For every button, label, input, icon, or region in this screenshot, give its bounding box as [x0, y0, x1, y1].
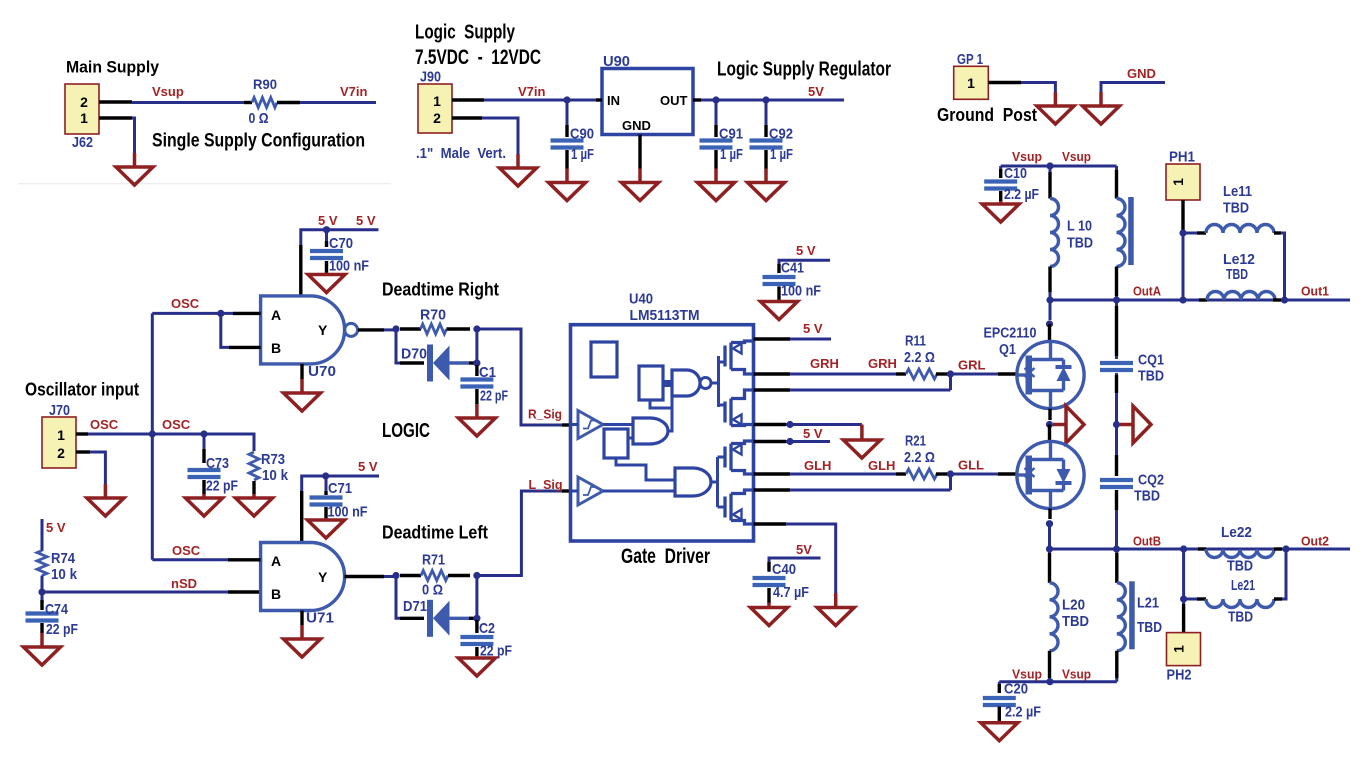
pin U70 A: [271, 307, 281, 323]
label Le21: [1231, 577, 1255, 594]
wire GP1 stub: [988, 81, 1021, 84]
ground GND net: [1083, 92, 1120, 124]
svg-text:Le11: Le11: [1223, 183, 1252, 200]
label Vsup top a: [1012, 149, 1042, 164]
svg-text:1: 1: [1170, 178, 1186, 186]
label D70: [401, 346, 427, 363]
transistor Q2: [1017, 441, 1085, 508]
label R90 value: [249, 111, 269, 127]
ground VSS: [817, 594, 854, 626]
wire R71 left stub: [400, 574, 421, 577]
ground C90: [549, 169, 586, 201]
wire L20 top stub: [1048, 549, 1051, 583]
label C92: [769, 126, 793, 143]
label C41: [781, 260, 804, 277]
label L20 value: [1062, 613, 1089, 630]
svg-text:5 V: 5 V: [356, 213, 376, 228]
wire nSD stub: [228, 590, 261, 593]
svg-text:R21: R21: [905, 433, 926, 450]
node OutB j2: [1113, 545, 1120, 552]
svg-text:PH1: PH1: [1169, 149, 1195, 166]
svg-text:TBD: TBD: [1228, 609, 1253, 626]
wire Le21 right corner: [1282, 549, 1286, 599]
svg-text:Out1: Out1: [1301, 284, 1329, 299]
wire R70 left stub: [400, 327, 421, 330]
svg-text:C20: C20: [1004, 680, 1028, 697]
wire Q1 source: [1048, 409, 1051, 420]
label 5V R74: [46, 520, 66, 535]
pin U71 A: [271, 553, 281, 569]
node GRL junction: [947, 370, 954, 377]
svg-text:Vsup: Vsup: [1012, 149, 1042, 164]
U40 wire midand-to-topand: [668, 395, 672, 432]
wire J70 pin2 to ground: [90, 452, 105, 484]
transistor Q1: [1017, 341, 1085, 408]
label R74 value: [51, 566, 78, 583]
U40 wire midrect-to-midand: [628, 437, 633, 440]
svg-text:C92: C92: [769, 126, 793, 143]
svg-text:5 V: 5 V: [46, 520, 66, 535]
U40 buffer R: [578, 411, 603, 439]
node Q2 bottom junction: [1046, 520, 1053, 527]
svg-text:TBD: TBD: [1226, 266, 1248, 283]
title Logic Supply range: [415, 46, 541, 69]
capacitor C10: [984, 166, 1017, 202]
wire 5V out net: [701, 99, 844, 102]
label J62: [72, 135, 93, 151]
wire OSC horizontal: [88, 433, 254, 436]
svg-text:D71: D71: [403, 598, 427, 615]
svg-text:U71: U71: [306, 610, 334, 627]
label CQ1 value: [1138, 368, 1164, 385]
U40 internal rect top-left: [591, 342, 617, 377]
svg-text:Deadtime Left: Deadtime Left: [382, 523, 488, 543]
pin U71 Y: [318, 569, 328, 585]
wire Le11 right corner: [1281, 233, 1285, 300]
label 5V C40: [796, 542, 812, 557]
U40 wire rect-elbow: [650, 400, 672, 408]
svg-text:Vsup: Vsup: [1062, 149, 1091, 164]
wire GRL pin: [754, 374, 951, 390]
wire L21 top stub: [1115, 549, 1118, 583]
title Main Supply: [66, 58, 159, 77]
node OutB j1: [1046, 545, 1053, 552]
label C74: [45, 601, 69, 618]
label Le11: [1223, 183, 1252, 200]
wire L10 right bottom stub: [1115, 267, 1118, 301]
svg-text:2.2 Ω: 2.2 Ω: [904, 349, 935, 366]
wire Q2 to OutB: [1048, 524, 1051, 549]
wire GLL pin: [754, 474, 951, 490]
label C91: [719, 126, 743, 143]
svg-text:TBD: TBD: [1227, 558, 1253, 575]
label C20 value: [1005, 704, 1041, 721]
transformer core L21: [1129, 581, 1135, 649]
wire U71 bottom pin: [300, 611, 303, 626]
wire OSC main vertical: [151, 313, 154, 559]
label J90 type: [416, 145, 506, 162]
ground C91: [698, 169, 735, 201]
label GLH a: [804, 458, 831, 473]
label LM5113TM: [630, 308, 700, 324]
label V7in: [340, 84, 368, 99]
svg-text:100 nF: 100 nF: [329, 258, 369, 275]
svg-text:Main Supply: Main Supply: [66, 58, 159, 77]
ground U70: [284, 379, 321, 411]
label R70: [420, 307, 446, 324]
U40 fet 1: [725, 341, 754, 374]
wire GRL to gate: [951, 373, 1017, 376]
node U70 in junction: [217, 310, 224, 317]
svg-text:J62: J62: [72, 135, 93, 151]
inductor Le21: [1184, 599, 1282, 608]
wire PH1 node to OutA: [1182, 233, 1185, 300]
wire 5V R74 vertical: [41, 519, 44, 551]
wire D71 left: [396, 576, 424, 619]
label U70: [308, 363, 336, 380]
svg-text:5 V: 5 V: [358, 459, 378, 474]
label R21 value: [904, 449, 935, 466]
wire U90 IN stub: [596, 98, 602, 101]
wire U70 A wire: [152, 312, 233, 315]
label C74 value: [46, 621, 78, 638]
wire Le21 left vertical: [1182, 549, 1185, 599]
label C92 value: [770, 146, 793, 163]
capacitor C70: [310, 232, 343, 273]
pin U70 Y: [318, 322, 328, 338]
svg-text:Vsup: Vsup: [1012, 667, 1042, 682]
inductor Le22: [1198, 549, 1282, 558]
node Le11 left junction: [1179, 229, 1186, 236]
svg-text:C10: C10: [1004, 165, 1027, 182]
wire PH2 pin: [1182, 599, 1185, 633]
ground GP1: [1037, 92, 1074, 124]
wire 5V rail C40: [769, 558, 821, 572]
wire GRH pin: [754, 372, 907, 375]
ground J62: [116, 153, 153, 185]
label R71 value: [422, 582, 443, 599]
wire Q2 source: [1048, 509, 1051, 519]
svg-text:GND: GND: [622, 118, 651, 133]
wire R_Sig stub: [562, 423, 571, 426]
wire L_Sig net: [477, 491, 562, 576]
and gate U71: [261, 543, 345, 611]
label PH2: [1167, 667, 1192, 683]
connector PH2: [1167, 633, 1201, 666]
U40 wire midrect-to-lowand: [616, 458, 675, 480]
label C2: [479, 620, 495, 637]
ground C20: [981, 721, 1018, 741]
wire J62 pin1 stub: [99, 116, 132, 119]
node VDD junction: [786, 438, 793, 445]
svg-text:V7in: V7in: [340, 84, 368, 99]
svg-text:Single Supply Configuration: Single Supply Configuration: [152, 131, 365, 152]
title Deadtime Right: [382, 280, 499, 300]
wire GND net: [1101, 83, 1165, 93]
wire OutB rail: [1050, 548, 1351, 551]
label CQ2 value: [1134, 488, 1160, 505]
capacitor C41: [763, 262, 796, 300]
diode D70: [427, 345, 469, 382]
label C2 value: [480, 643, 512, 660]
svg-text:IN: IN: [607, 93, 620, 108]
label Le12: [1223, 251, 1255, 268]
label 5V mid: [803, 426, 823, 441]
svg-text:TBD: TBD: [1134, 488, 1160, 505]
ground C73: [186, 494, 223, 516]
label OSC U71: [172, 543, 201, 558]
label 5V rail b: [356, 213, 376, 228]
svg-text:2.2 µF: 2.2 µF: [1005, 704, 1041, 721]
svg-text:CQ2: CQ2: [1138, 472, 1164, 489]
svg-text:Vsup: Vsup: [152, 84, 184, 99]
wire V7in net: [300, 101, 376, 104]
node R70 left junction: [392, 325, 399, 332]
label OutA: [1133, 284, 1162, 299]
wire PH1 pin: [1181, 200, 1184, 233]
wire D70 right: [469, 361, 477, 364]
wire L10 left bottom stub: [1048, 267, 1051, 301]
node Le21 left junction: [1180, 595, 1187, 602]
label U40: [629, 292, 653, 308]
label Le12 value: [1226, 266, 1248, 283]
svg-text:R74: R74: [51, 550, 76, 567]
title Logic Supply Regulator: [717, 58, 891, 80]
label L10 value: [1067, 235, 1093, 252]
wire Vsup bottom rail: [999, 680, 1117, 683]
wire U70 bottom pin: [300, 364, 303, 379]
svg-text:V7in: V7in: [518, 84, 546, 99]
svg-text:100 nF: 100 nF: [328, 504, 368, 521]
svg-text:5V: 5V: [808, 84, 824, 99]
label Le22: [1221, 524, 1252, 541]
label C1 value: [480, 388, 508, 405]
svg-text:R71: R71: [422, 552, 445, 569]
svg-text:CQ1: CQ1: [1138, 352, 1164, 369]
capacitor C91: [700, 103, 733, 169]
svg-text:Q1: Q1: [999, 342, 1016, 358]
wire U40 5V top pin: [754, 337, 832, 340]
ground J90 pin2: [500, 154, 537, 186]
svg-text:R73: R73: [261, 451, 285, 468]
svg-text:LM5113TM: LM5113TM: [630, 308, 700, 324]
svg-text:5V: 5V: [796, 542, 812, 557]
label C71 value: [328, 504, 368, 521]
ground C2: [458, 656, 495, 676]
svg-text:C73: C73: [206, 455, 229, 472]
wire R21 right stub: [936, 472, 950, 475]
wire Vsup net: [132, 101, 252, 104]
pin GND label: [622, 118, 651, 133]
node C70 junction: [323, 226, 330, 233]
svg-text:1: 1: [80, 110, 88, 126]
svg-text:Logic Supply: Logic Supply: [415, 22, 516, 44]
wire VDD 5V stub: [786, 440, 830, 443]
label C40: [772, 561, 796, 578]
wire L_Sig stub: [562, 489, 571, 492]
resistor R21: [906, 469, 937, 479]
svg-text:GND: GND: [1127, 66, 1156, 81]
svg-text:PH2: PH2: [1167, 667, 1192, 683]
svg-text:0 Ω: 0 Ω: [422, 582, 443, 599]
inductor Le12: [1199, 292, 1281, 301]
wire VDD 5V pin: [754, 440, 787, 443]
svg-text:U70: U70: [308, 363, 336, 380]
label L10: [1067, 218, 1092, 235]
label OutB: [1133, 534, 1161, 549]
label R74: [51, 550, 76, 567]
svg-text:10 k: 10 k: [51, 566, 78, 583]
svg-text:2.2 Ω: 2.2 Ω: [904, 449, 935, 466]
label J70: [49, 403, 70, 419]
svg-text:B: B: [271, 340, 281, 356]
wire U70 A stub: [233, 312, 261, 315]
wire L10 left top stub: [1049, 166, 1052, 199]
capacitor C90: [551, 103, 584, 169]
wire nSD net: [42, 591, 228, 594]
node HS junction: [786, 421, 793, 428]
divider line: [18, 183, 391, 185]
wire U71 top pin: [300, 491, 303, 543]
svg-text:GRL: GRL: [958, 358, 986, 373]
U40 fet 4: [725, 490, 754, 524]
svg-text:U40: U40: [629, 292, 653, 308]
svg-text:4.7 µF: 4.7 µF: [773, 584, 809, 601]
svg-text:J90: J90: [420, 70, 441, 86]
node V7in junction: [563, 96, 570, 103]
connector J62: [65, 84, 99, 134]
node C91 junction: [712, 96, 719, 103]
svg-text:5 V: 5 V: [796, 243, 816, 258]
wire Q2 drain black: [1048, 425, 1051, 442]
ground HS sideways 1: [1053, 406, 1084, 443]
label EPC2110: [984, 326, 1037, 342]
U40 mid and gate: [633, 418, 668, 444]
label OSC a: [90, 417, 119, 432]
label 5V out: [808, 84, 824, 99]
wire J90 pin2 stub: [452, 116, 482, 119]
label Vsup: [152, 84, 184, 99]
ground U90: [622, 169, 659, 201]
svg-text:EPC2110: EPC2110: [984, 326, 1037, 342]
capacitor C1: [460, 365, 493, 404]
svg-text:Deadtime Right: Deadtime Right: [382, 280, 499, 300]
svg-text:0 Ω: 0 Ω: [249, 111, 269, 127]
title Oscillator input: [25, 379, 139, 399]
svg-text:1 µF: 1 µF: [571, 146, 594, 163]
node R71 left junction: [392, 572, 399, 579]
label Vsup bottom b: [1062, 667, 1091, 682]
label C73 value: [206, 478, 238, 495]
wire D70 left: [396, 329, 424, 363]
svg-text:1 µF: 1 µF: [770, 146, 793, 163]
ground R73: [236, 494, 273, 516]
svg-text:Y: Y: [318, 322, 328, 338]
wire U71 A wire: [152, 558, 228, 561]
svg-text:LOGIC: LOGIC: [382, 420, 430, 442]
svg-text:10 k: 10 k: [262, 467, 289, 484]
wire OutA rail: [1050, 299, 1350, 302]
svg-text:nSD: nSD: [171, 576, 197, 591]
label C1: [479, 364, 496, 381]
ground C40: [751, 603, 788, 626]
label C91 value: [720, 146, 743, 163]
svg-text:1: 1: [1171, 645, 1187, 653]
node Vsup bottom junction: [1046, 678, 1053, 685]
label C10 value: [1004, 186, 1039, 203]
svg-text:OUT: OUT: [660, 93, 688, 108]
svg-text:C2: C2: [479, 620, 495, 637]
svg-text:Oscillator input: Oscillator input: [25, 379, 139, 399]
wire U71 Y out: [345, 575, 397, 578]
inductor Le11: [1183, 225, 1281, 234]
label R11 value: [904, 349, 935, 366]
U40 low and gate: [675, 468, 711, 496]
node D70 right junction: [473, 359, 480, 366]
wire J70 pin2 stub: [76, 450, 90, 453]
wire J70 pin1 stub: [76, 432, 88, 435]
U40 fet 3: [725, 441, 754, 474]
label Le11 value: [1223, 199, 1249, 216]
U40 internal rect mid: [604, 429, 628, 458]
node GLL junction: [947, 470, 954, 477]
capacitor C74: [26, 595, 59, 633]
svg-text:2: 2: [57, 445, 65, 461]
wire V7in net 2: [484, 99, 598, 102]
wire Vsup top rail: [1001, 165, 1117, 168]
node OSC junction 2: [200, 430, 207, 437]
wire 5V rail C41: [779, 260, 830, 272]
label nSD: [171, 576, 197, 591]
svg-text:TBD: TBD: [1223, 199, 1249, 216]
U40 wire bufL-to-lowand: [571, 490, 675, 493]
pin OUT label: [660, 93, 688, 108]
node CQ junction: [1113, 421, 1120, 428]
node OSC junction 1: [149, 430, 156, 437]
svg-text:C91: C91: [719, 126, 743, 143]
U40 buffer L: [578, 477, 603, 505]
label 5V C41: [796, 243, 816, 258]
label Le21 value: [1228, 609, 1253, 626]
svg-text:1: 1: [57, 427, 65, 443]
inductor L10 left coil: [1050, 199, 1059, 267]
svg-text:Gate Driver: Gate Driver: [621, 545, 710, 568]
op-amp U90 regulator box: [602, 69, 693, 135]
capacitor CQ2: [1100, 425, 1133, 550]
ground C74: [24, 633, 61, 665]
capacitor C40: [753, 560, 786, 603]
svg-text:TBD: TBD: [1062, 613, 1089, 630]
ground J70 pin2: [87, 484, 124, 516]
svg-text:22 pF: 22 pF: [206, 478, 238, 495]
ground U71: [284, 625, 321, 657]
label GP1: [957, 52, 983, 68]
U40 top and gate: [672, 370, 700, 396]
ground C41: [761, 300, 798, 320]
svg-text:R90: R90: [253, 76, 277, 92]
label L20: [1062, 596, 1085, 613]
connector J70: [42, 417, 76, 468]
svg-text:5 V: 5 V: [803, 426, 823, 441]
label Vsup top b: [1062, 149, 1091, 164]
U40 wire rect-to-topand: [663, 380, 672, 387]
svg-text:2: 2: [433, 110, 441, 126]
inductor L10 right coil: [1117, 199, 1126, 267]
label R73 value: [262, 467, 289, 484]
ground CQ sideways: [1120, 406, 1151, 443]
label 5V rail a: [318, 213, 338, 228]
svg-text:GRH: GRH: [810, 356, 839, 371]
